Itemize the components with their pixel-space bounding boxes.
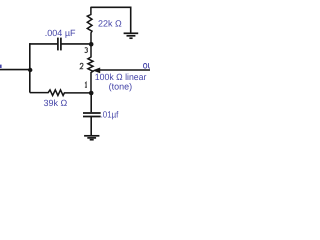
wire: wiper to output	[100, 69, 151, 71]
capacitor C1 .004uF plates	[58, 38, 61, 51]
input label fragment (cut off at edge)	[0, 65, 2, 68]
potentiometer R3 body (vertical)	[88, 46, 93, 91]
resistor R1 22k (vertical)	[87, 7, 92, 43]
ground GND1	[124, 33, 139, 38]
pin 2 label	[80, 63, 83, 68]
node 1 junction dot	[89, 91, 94, 96]
wire: vertical drop to ground GND1	[130, 7, 132, 33]
svg-text:100k Ω linear: 100k Ω linear	[95, 72, 147, 82]
capacitor C2 .01uf plates	[83, 113, 101, 117]
pin 1 label	[85, 82, 87, 87]
wire: capacitor C2 down to ground GND2	[90, 117, 92, 135]
wire: left corner to capacitor C1	[30, 43, 58, 45]
svg-text:.01µf: .01µf	[101, 110, 119, 120]
wire: left vertical branch	[29, 43, 31, 93]
svg-text:.004 µF: .004 µF	[45, 28, 76, 38]
svg-text:(tone): (tone)	[109, 81, 133, 91]
potentiometer wiper arrow	[93, 68, 100, 73]
wire: top rail from R1 top to ground drop	[91, 6, 131, 8]
pin 3 label	[85, 48, 88, 53]
wire: capacitor C1 to node 3	[61, 43, 89, 45]
resistor R2 39k (horizontal)	[30, 90, 90, 96]
wire: node 1 down to capacitor C2	[90, 94, 92, 112]
node IN junction dot	[28, 68, 32, 72]
wire: input from left edge	[0, 69, 29, 71]
svg-text:22k Ω: 22k Ω	[98, 19, 122, 29]
ground GND2	[84, 136, 99, 140]
svg-text:39k Ω: 39k Ω	[44, 98, 68, 108]
node 3 junction dot	[89, 42, 94, 47]
svg-text:OUT: OUT	[143, 62, 150, 71]
